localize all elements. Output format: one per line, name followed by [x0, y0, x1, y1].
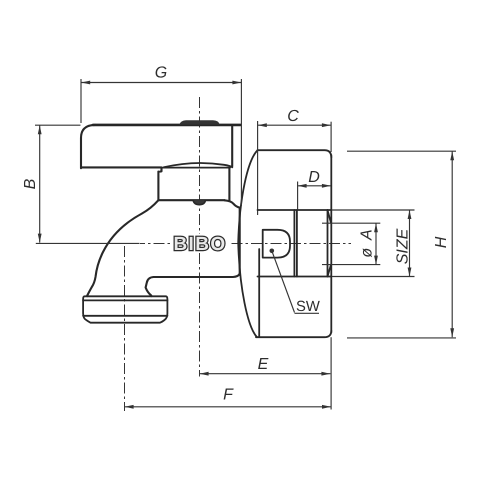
- dimension H: [347, 151, 456, 338]
- spout flange: [83, 296, 167, 322]
- svg-text:SW: SW: [296, 299, 320, 315]
- svg-text:SIZE: SIZE: [394, 228, 411, 264]
- wall flange dome profile: [238, 150, 257, 337]
- centerline spout vertical: [124, 246, 126, 411]
- flange face line upper: [257, 121, 259, 215]
- SW leader dot: [270, 249, 275, 254]
- svg-text:C: C: [287, 108, 299, 125]
- dimension SIZE: [332, 210, 415, 277]
- dimension oA: [322, 223, 380, 264]
- bonnet body: [158, 168, 229, 201]
- centerline stem vertical: [199, 97, 201, 377]
- svg-text:E: E: [258, 356, 269, 373]
- SW leader line: [272, 251, 295, 313]
- BIBO backing: [170, 234, 230, 253]
- svg-text:B: B: [22, 178, 39, 189]
- wall extension line: [330, 337, 332, 409]
- spout inner curve and body bottom: [146, 274, 240, 296]
- dimension E: [200, 356, 331, 376]
- handle cap dome filled: [180, 120, 220, 124]
- thread chamfer: [328, 210, 332, 277]
- body top right fillet: [225, 200, 240, 207]
- dimension G: [81, 65, 241, 207]
- wall flange bottom edge: [256, 331, 331, 338]
- spout outer curve: [87, 200, 158, 295]
- bonnet dome arc: [164, 163, 233, 167]
- thread start lines: [294, 210, 297, 277]
- wall flange right edge: [330, 155, 332, 333]
- BIBO text: [173, 234, 226, 255]
- svg-text:G: G: [155, 65, 167, 82]
- svg-text:H: H: [433, 236, 450, 248]
- wall flange top edge: [258, 150, 332, 157]
- hex nut SW: [263, 230, 290, 258]
- dimension C: [258, 108, 331, 127]
- flange face line lower: [258, 249, 260, 337]
- dimension F: [125, 387, 331, 409]
- body right edge: [239, 208, 241, 274]
- svg-text:D: D: [308, 169, 320, 186]
- dimension B: [22, 125, 139, 243]
- dimension D: [298, 169, 331, 210]
- handle lever: [81, 125, 240, 172]
- bonnet base line: [160, 167, 231, 169]
- svg-text:ø A: ø A: [359, 227, 376, 257]
- wall line upper extension: [330, 122, 332, 152]
- stem tip notch: [193, 200, 205, 204]
- SW label: [295, 299, 320, 315]
- nipple outline: [258, 210, 332, 277]
- centerline outlet horizontal: [140, 243, 351, 245]
- svg-text:BIBO: BIBO: [173, 234, 226, 255]
- svg-text:F: F: [223, 387, 234, 404]
